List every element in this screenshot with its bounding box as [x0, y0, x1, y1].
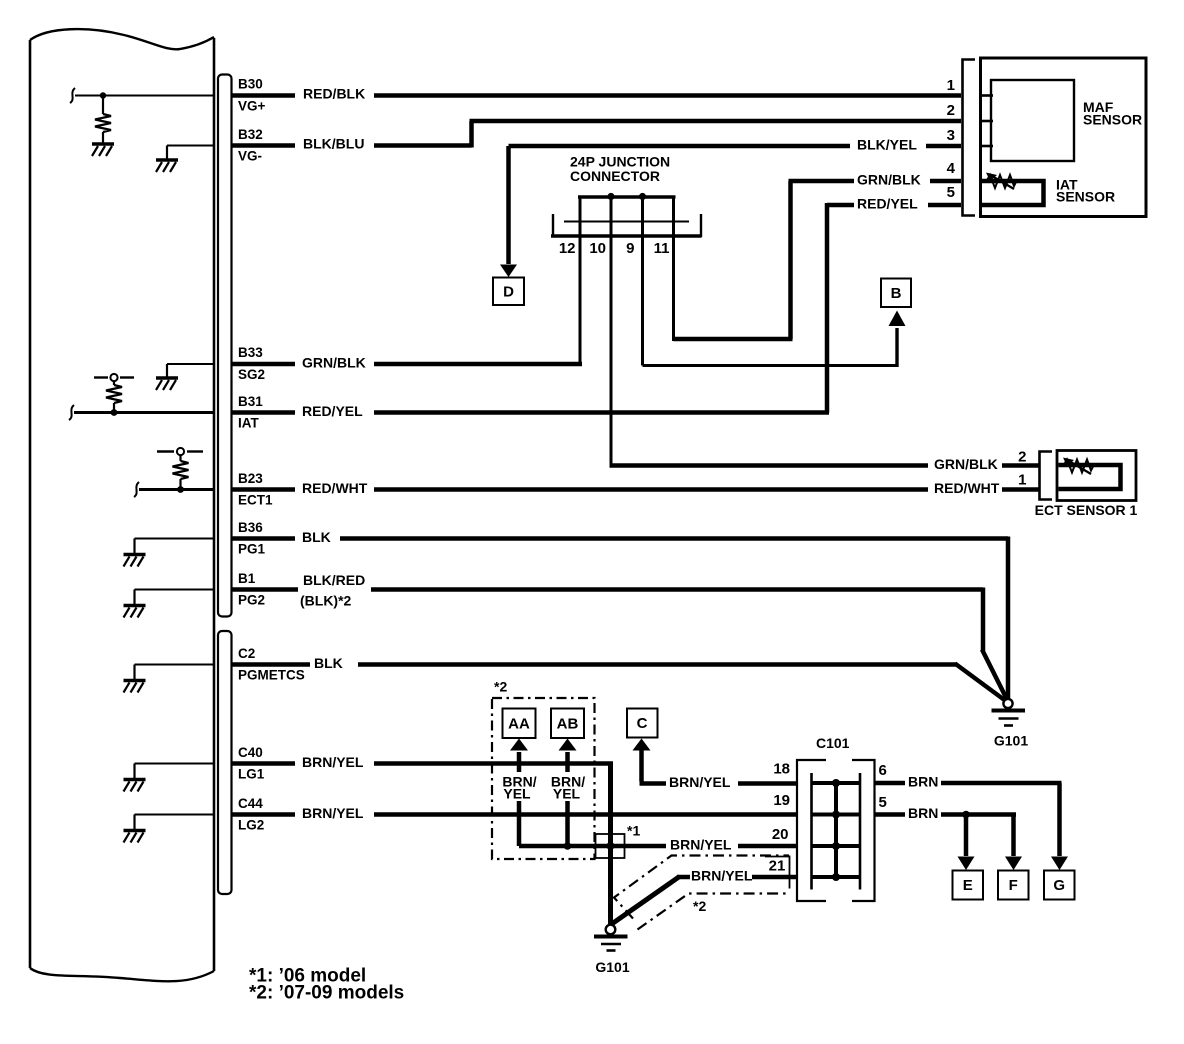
C101 connector right bracket [852, 760, 875, 901]
node on B23 lead [177, 486, 184, 493]
C101 internal row 19 [812, 813, 861, 817]
svg-text:RED/WHT: RED/WHT [934, 480, 1000, 496]
svg-text:BRN/YEL: BRN/YEL [669, 774, 731, 790]
wire resistor to ground [102, 132, 104, 144]
svg-text:1: 1 [947, 77, 955, 94]
wire C101 pin6 BRN [875, 781, 906, 786]
wire C101 pin5 BRN [875, 812, 906, 817]
pin21 thin box [765, 856, 790, 889]
dash-dot box *2 (AA/AB) [492, 698, 595, 859]
resistor R-noise1 (VG+ filter) [95, 114, 111, 132]
svg-text:(BLK)*2: (BLK)*2 [300, 593, 352, 609]
wire junction bar 24P [578, 195, 676, 198]
svg-text:6: 6 [879, 762, 887, 779]
svg-text:18: 18 [773, 761, 790, 778]
svg-text:9: 9 [626, 240, 634, 257]
connector G box [1044, 871, 1075, 900]
wire B23 thin lead [139, 488, 214, 491]
arrowhead into C [633, 739, 651, 751]
ECM torn outline [30, 29, 214, 49]
svg-text:SG2: SG2 [238, 367, 265, 382]
wire junction pin12 drop [579, 197, 582, 364]
ground GND2 (VG-) [156, 160, 178, 172]
wire drop to connector D [506, 146, 511, 264]
wire B36 drop to G101 [1006, 537, 1011, 700]
svg-text:BRN: BRN [908, 805, 938, 821]
C101 internal row 18 [812, 781, 861, 785]
wire C2 lead [135, 664, 215, 666]
svg-text:G101: G101 [994, 733, 1028, 749]
svg-text:GRN/BLK: GRN/BLK [857, 172, 921, 188]
svg-text:*2: ’07-09 models: *2: ’07-09 models [249, 983, 404, 1004]
thermistor arrow IAT [992, 176, 1014, 189]
wire C40 drop to ground/pin20 [608, 764, 613, 925]
wire B30 thin lead inside ECM [75, 95, 214, 97]
wire drop to G [1057, 783, 1062, 856]
ground GND7 (LG1) [124, 780, 146, 792]
svg-text:3: 3 [947, 127, 955, 144]
MAF pin stubs [982, 96, 993, 147]
svg-text:F: F [1009, 877, 1018, 894]
svg-text:5: 5 [947, 184, 955, 201]
wire junction pin9 drop [641, 197, 644, 366]
svg-text:VG-: VG- [238, 149, 262, 164]
svg-text:LG1: LG1 [238, 767, 265, 782]
wire C44 lead [135, 814, 215, 816]
wire junction pin11 drop [672, 197, 675, 341]
arrowhead into B [889, 311, 906, 327]
svg-text:CONNECTOR: CONNECTOR [570, 168, 660, 184]
wire B23 RED/WHT to ECT pin1 [232, 487, 295, 492]
svg-text:B36: B36 [238, 520, 263, 535]
wire BRN/YEL to C101 pin18 [738, 781, 797, 786]
wire B1 drop and slant to G101 [981, 588, 986, 652]
wire B36 lead [135, 538, 215, 540]
ground G101 right (circle) [1003, 699, 1012, 708]
svg-text:LG2: LG2 [238, 818, 264, 833]
node on B31 lead [111, 409, 118, 416]
svg-text:BRN/YEL: BRN/YEL [670, 837, 732, 853]
svg-text:4: 4 [947, 160, 956, 177]
svg-text:BRN/YEL: BRN/YEL [302, 754, 364, 770]
svg-text:C: C [637, 715, 648, 732]
node on B30 lead [100, 92, 106, 98]
thermistor squiggle IAT [986, 175, 1017, 188]
svg-text:BRN/YEL: BRN/YEL [302, 805, 364, 821]
svg-text:YEL: YEL [553, 786, 581, 802]
ground GND6 (PGMETCS) [124, 681, 146, 693]
break slash B31 [69, 405, 74, 420]
svg-text:B1: B1 [238, 571, 256, 586]
wire filter lead up [113, 403, 115, 413]
arrowhead into G [1051, 857, 1068, 871]
arrowhead into D [500, 265, 517, 278]
connector B box [881, 279, 911, 308]
svg-text:G101: G101 [595, 959, 629, 975]
svg-text:B32: B32 [238, 127, 263, 142]
MAF sensor box [981, 58, 1147, 217]
ECM connector block 1 [218, 75, 232, 617]
IAT sensor loop inside MAF [982, 181, 1044, 205]
dash-dot upper boundary *2 lower region [614, 856, 789, 919]
node star1 junction [607, 842, 615, 850]
svg-text:21: 21 [769, 858, 786, 875]
svg-text:PG1: PG1 [238, 542, 266, 557]
svg-text:PGMETCS: PGMETCS [238, 668, 305, 683]
ground G101 left bars [594, 937, 628, 951]
dash-dot lower boundary *2 lower region [638, 894, 790, 930]
wire B1 lead [135, 589, 215, 591]
wire AA arrow stem [517, 752, 522, 846]
wire junction pin10 drop to ECT row [610, 197, 613, 466]
wire riser to MAF pin2 [469, 121, 474, 148]
svg-text:BRN: BRN [908, 774, 938, 790]
svg-text:B31: B31 [238, 394, 263, 409]
svg-text:GRN/BLK: GRN/BLK [934, 456, 998, 472]
svg-text:B30: B30 [238, 77, 263, 92]
wire C40 lead [135, 763, 215, 765]
svg-text:12: 12 [559, 240, 576, 257]
svg-text:E: E [963, 877, 973, 894]
svg-text:B33: B33 [238, 345, 263, 360]
wire B30 RED/BLK to MAF pin1 [232, 93, 295, 98]
wire pin21 BRN/YEL diagonal from G101 [611, 877, 680, 925]
svg-text:IAT: IAT [238, 416, 259, 431]
svg-text:5: 5 [879, 794, 887, 811]
wire B1 BLK/RED [232, 587, 298, 592]
ground G101 left (circle) [606, 925, 616, 935]
svg-text:C44: C44 [238, 796, 263, 811]
svg-text:VG+: VG+ [238, 99, 266, 114]
ground GND5 (PG2) [124, 606, 146, 618]
ground GND1 (B30 filter) [92, 144, 114, 156]
connector F box [998, 871, 1029, 900]
svg-text:RED/YEL: RED/YEL [302, 403, 363, 419]
C101 connector left bracket [797, 760, 826, 901]
svg-text:G: G [1053, 877, 1065, 894]
svg-text:D: D [503, 284, 514, 301]
wire riser pin4 to junction [788, 181, 793, 339]
node E junction [962, 811, 970, 819]
svg-text:B23: B23 [238, 471, 263, 486]
wire BLK/YEL MAF pin3 [509, 144, 851, 149]
ground GND8 (LG2) [124, 831, 146, 843]
wire B31 thin lead [74, 411, 214, 414]
ground G101 right bars [992, 711, 1026, 726]
wire GRN/BLK to ECT pin2 [610, 463, 929, 468]
connector C box [627, 709, 658, 738]
MAF inner element box [991, 80, 1074, 161]
connector AA box [503, 709, 536, 739]
wire riser pin5 to B31 row [825, 203, 830, 413]
ECT sensor connector shell [1040, 452, 1053, 500]
wire resistor lead down [102, 96, 104, 115]
svg-text:BLK/RED: BLK/RED [303, 572, 365, 588]
svg-text:BLK: BLK [314, 655, 343, 671]
ECM connector block 2 [218, 631, 232, 894]
24P junction connector bracket [551, 193, 702, 237]
wire AB arrow stem [565, 752, 570, 846]
MAF sensor connector shell [963, 60, 976, 216]
ground GND3 (SG2) [156, 378, 178, 390]
wire B31 RED/YEL [232, 410, 295, 415]
svg-text:RED/YEL: RED/YEL [857, 196, 918, 212]
svg-text:SENSOR: SENSOR [1056, 189, 1115, 205]
wire C40 BRN/YEL [232, 761, 295, 766]
wire B36 BLK [232, 536, 295, 541]
terminal bar with circle (ECT1 filter top) [157, 450, 174, 452]
wire drop to F [1011, 815, 1016, 857]
connector D box [493, 278, 524, 306]
arrowhead into F [1005, 857, 1022, 871]
wire RED/YEL MAF pin5 [928, 203, 961, 208]
svg-text:B: B [891, 285, 902, 302]
arrowhead into AB [559, 739, 577, 751]
svg-text:C40: C40 [238, 745, 263, 760]
svg-text:RED/WHT: RED/WHT [302, 480, 368, 496]
arrowhead into AA [510, 739, 528, 751]
svg-text:ECT SENSOR 1: ECT SENSOR 1 [1035, 502, 1138, 518]
svg-text:AA: AA [508, 716, 530, 733]
wire B33 GRN/BLK [232, 362, 295, 367]
connector AB box [551, 709, 584, 739]
wire pin20 row BRN/YEL [519, 844, 666, 849]
ECT thermistor loop [1059, 465, 1121, 489]
svg-text:*1: *1 [627, 823, 640, 839]
svg-text:2: 2 [1018, 449, 1026, 466]
break slash B23 [134, 482, 139, 497]
thermistor squiggle ECT [1063, 460, 1094, 473]
wire pin9 to connector B [643, 364, 898, 367]
svg-text:YEL: YEL [503, 786, 531, 802]
svg-text:1: 1 [1018, 472, 1026, 489]
svg-text:BLK: BLK [302, 529, 331, 545]
white masks for BRN/YEL under AA AB [501, 772, 538, 801]
ECT sensor box [1057, 451, 1136, 501]
wire B32 BLK/BLU [232, 143, 295, 148]
svg-text:SENSOR: SENSOR [1083, 112, 1142, 128]
connector E box [953, 871, 984, 900]
svg-text:19: 19 [773, 792, 790, 809]
C101 internal row 20 [812, 844, 861, 848]
svg-text:AB: AB [557, 716, 579, 733]
wire drop to E [964, 815, 969, 857]
wire C connector drop to pin18 [639, 748, 644, 782]
C101 internal row 21 [812, 875, 861, 879]
svg-text:BLK/YEL: BLK/YEL [857, 137, 917, 153]
svg-text:C2: C2 [238, 646, 255, 661]
wire GRN/BLK MAF pin4 [930, 179, 961, 184]
break slash B30 [70, 88, 75, 103]
svg-text:PG2: PG2 [238, 593, 265, 608]
svg-text:BLK/BLU: BLK/BLU [303, 136, 364, 152]
arrowhead into E [958, 857, 975, 871]
wire C2 BLK [232, 662, 310, 667]
svg-text:*2: *2 [494, 679, 507, 695]
thermistor arrow ECT [1069, 461, 1091, 474]
resistor R-noise3 (ECT1 filter) [173, 461, 189, 479]
ground GND4 (PG1) [124, 555, 146, 567]
box *1 marker [596, 834, 625, 858]
svg-text:*2: *2 [693, 898, 706, 914]
svg-text:2: 2 [947, 102, 955, 119]
wire C2 slant to G101 [955, 664, 1007, 702]
svg-text:GRN/BLK: GRN/BLK [302, 355, 366, 371]
node AB junction [564, 842, 572, 850]
wire SG2 lead [167, 363, 214, 365]
svg-text:RED/BLK: RED/BLK [303, 86, 365, 102]
svg-text:10: 10 [589, 240, 606, 257]
wire VG- lead [167, 145, 214, 147]
wire C44 BRN/YEL to C101 pin19 [232, 812, 295, 817]
terminal bar with circle (IAT filter top) [94, 376, 108, 378]
resistor R-noise2 (IAT filter) [106, 385, 122, 403]
svg-text:11: 11 [654, 240, 670, 257]
C101 inner terminals [812, 773, 861, 890]
C101 nodes [832, 779, 840, 881]
svg-text:ECT1: ECT1 [238, 493, 273, 508]
svg-text:C101: C101 [816, 735, 850, 751]
svg-text:BRN/YEL: BRN/YEL [691, 868, 753, 884]
svg-text:20: 20 [772, 826, 789, 843]
